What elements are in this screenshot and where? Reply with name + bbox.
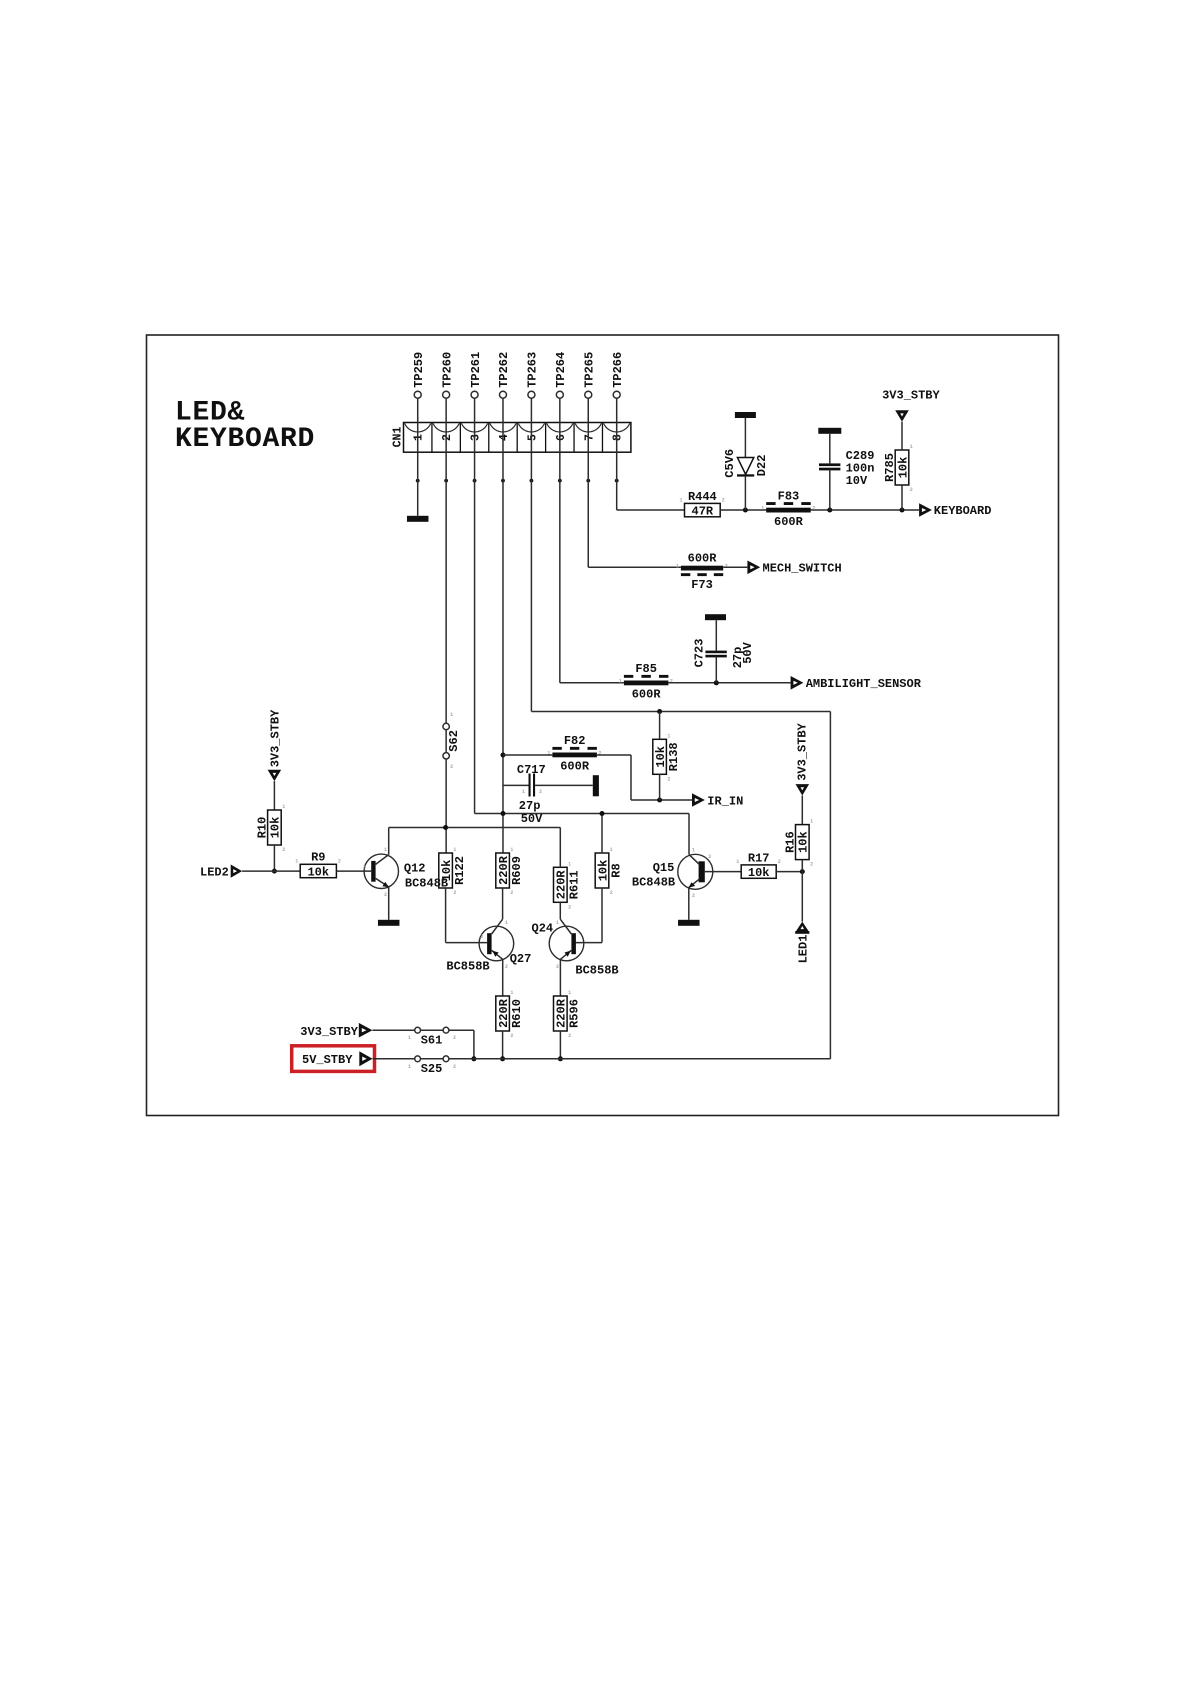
- svg-text:TP265: TP265: [582, 352, 596, 388]
- ferrite bead F85: [624, 681, 669, 686]
- svg-text:2: 2: [453, 1064, 456, 1070]
- node pin4/rail junction: [500, 811, 505, 816]
- wire 3V3 to R10: [273, 781, 275, 810]
- svg-text:1: 1: [453, 847, 456, 853]
- svg-text:8: 8: [612, 434, 625, 441]
- svg-text:R596: R596: [568, 999, 582, 1028]
- resistor R610: [496, 996, 510, 1031]
- svg-text:10k: 10k: [748, 866, 770, 880]
- svg-text:F82: F82: [564, 734, 586, 748]
- svg-text:R9: R9: [311, 851, 325, 865]
- svg-text:R16: R16: [784, 831, 798, 853]
- supply bar above D22: [735, 412, 756, 418]
- svg-text:3: 3: [480, 934, 483, 940]
- wire pin2 (S62/R122 net): [445, 452, 447, 853]
- wire 3V3 to R16: [801, 796, 803, 825]
- svg-text:TP261: TP261: [469, 352, 483, 388]
- resistor R609: [496, 853, 510, 888]
- svg-text:1: 1: [568, 861, 571, 867]
- wire Q27 emitter to R610: [502, 959, 504, 996]
- wire bar to D22: [744, 418, 746, 458]
- svg-text:1: 1: [510, 990, 513, 996]
- svg-text:R10: R10: [256, 817, 270, 839]
- wire F73 to MECH_SWITCH arrow: [723, 566, 747, 568]
- svg-text:R8: R8: [609, 863, 623, 877]
- resistor R122: [439, 853, 453, 888]
- svg-text:1: 1: [910, 444, 913, 450]
- wire R122 to Q27 base: [445, 888, 447, 943]
- capacitor C717: [503, 784, 529, 786]
- net arrow KEYBOARD: [919, 503, 932, 517]
- node R138 top junction: [657, 709, 662, 714]
- svg-text:1: 1: [510, 847, 513, 853]
- wire rail2 to Q15 collector: [688, 814, 690, 855]
- wire R17 to LED1 node: [776, 871, 802, 873]
- wire Q15 base to R17: [704, 871, 741, 873]
- svg-text:2: 2: [692, 893, 695, 899]
- svg-text:27p: 27p: [519, 799, 541, 813]
- svg-text:50V: 50V: [521, 812, 543, 826]
- svg-text:CN1: CN1: [392, 427, 405, 448]
- ferrite bead F82: [552, 753, 597, 758]
- svg-text:R138: R138: [667, 742, 681, 771]
- resistor R10: [268, 810, 282, 845]
- transistor Q27 BC858B: [479, 926, 514, 961]
- wire pin6 to F85 row: [559, 452, 561, 683]
- svg-text:KEYBOARD: KEYBOARD: [175, 424, 315, 455]
- svg-text:KEYBOARD: KEYBOARD: [934, 504, 992, 518]
- wire node to LED1: [801, 872, 803, 922]
- wire Q12 emitter to ground: [388, 887, 390, 920]
- svg-text:6: 6: [555, 434, 568, 441]
- svg-text:F73: F73: [691, 578, 713, 592]
- junction dots under CN1: [416, 479, 420, 483]
- red highlight box around 5V_STBY: [292, 1046, 375, 1072]
- wire pin5 to right rail: [530, 452, 532, 711]
- wire R444 to KEYBOARD arrow: [720, 509, 919, 511]
- switch S62: [443, 723, 449, 729]
- svg-text:2: 2: [670, 679, 673, 685]
- svg-text:1: 1: [692, 848, 695, 854]
- svg-text:BC848B: BC848B: [632, 875, 675, 889]
- svg-text:2: 2: [722, 497, 725, 503]
- svg-text:Q24: Q24: [532, 922, 554, 936]
- wire R611 to Q24 collector: [559, 902, 561, 919]
- svg-text:2: 2: [667, 776, 670, 782]
- svg-text:1: 1: [282, 804, 285, 810]
- svg-text:1: 1: [680, 497, 683, 503]
- svg-text:F85: F85: [635, 662, 657, 676]
- CN1 pin numbers 1-8: [413, 434, 426, 441]
- resistor R8: [595, 853, 609, 888]
- connector CN1 body: [404, 423, 631, 453]
- svg-text:1: 1: [556, 920, 559, 926]
- wire LED2 arrow to R9: [242, 870, 300, 872]
- resistor R9: [300, 864, 336, 877]
- resistor R444: [685, 503, 721, 516]
- svg-text:3V3_STBY: 3V3_STBY: [300, 1025, 358, 1039]
- capacitor C723: [705, 614, 726, 620]
- svg-text:600R: 600R: [560, 760, 590, 774]
- svg-text:10k: 10k: [307, 865, 329, 879]
- node R610 bottom junction: [500, 1056, 505, 1061]
- wire Q12 collector to rail: [388, 828, 390, 855]
- node C289 junction: [827, 508, 832, 513]
- svg-text:TP260: TP260: [440, 352, 454, 388]
- svg-text:220R: 220R: [497, 855, 511, 885]
- svg-text:R444: R444: [688, 490, 717, 504]
- test point circles: [414, 391, 421, 398]
- svg-text:600R: 600R: [632, 688, 662, 702]
- power 3V3_STBY right: [795, 722, 809, 780]
- svg-text:10k: 10k: [797, 831, 811, 853]
- svg-text:1: 1: [384, 847, 387, 853]
- svg-text:4: 4: [498, 434, 511, 441]
- svg-text:2: 2: [910, 487, 913, 493]
- node R16/R17/LED1 junction: [800, 869, 805, 874]
- svg-text:10k: 10k: [440, 860, 454, 882]
- svg-text:S61: S61: [421, 1033, 443, 1047]
- svg-text:3: 3: [708, 854, 711, 860]
- svg-text:10V: 10V: [846, 474, 868, 488]
- svg-text:1: 1: [295, 858, 298, 864]
- svg-text:2: 2: [450, 764, 453, 770]
- svg-text:R785: R785: [883, 453, 897, 482]
- transistor Q12 BC848B: [364, 854, 398, 888]
- node C723 junction: [714, 680, 719, 685]
- node R138 bottom junction: [657, 798, 662, 803]
- wire pin4 to F82: [503, 754, 552, 756]
- svg-text:1: 1: [667, 733, 670, 739]
- svg-text:1: 1: [522, 789, 525, 795]
- svg-text:600R: 600R: [688, 552, 718, 566]
- svg-text:220R: 220R: [497, 998, 511, 1028]
- svg-text:10k: 10k: [896, 457, 910, 479]
- rail Q12 collector to R611: [389, 827, 561, 829]
- svg-text:220R: 220R: [555, 870, 569, 900]
- svg-text:C723: C723: [693, 639, 707, 668]
- svg-text:2: 2: [778, 859, 781, 865]
- svg-text:2: 2: [610, 890, 613, 896]
- svg-text:1: 1: [676, 564, 679, 570]
- wire R16 to node: [801, 860, 803, 872]
- zener diode D22 C5V6: [737, 458, 753, 475]
- svg-text:MECH_SWITCH: MECH_SWITCH: [763, 562, 842, 576]
- wire R8 to Q24 base: [601, 888, 603, 943]
- svg-text:C717: C717: [517, 763, 546, 777]
- svg-text:220R: 220R: [555, 998, 569, 1028]
- svg-text:2: 2: [441, 434, 454, 441]
- svg-text:R122: R122: [453, 856, 467, 885]
- svg-text:AMBILIGHT_SENSOR: AMBILIGHT_SENSOR: [806, 677, 922, 691]
- ferrite bead F83: [766, 508, 811, 513]
- power 3V3_STBY left: [269, 709, 283, 767]
- svg-text:1: 1: [619, 679, 622, 685]
- net arrow AMBILIGHT_SENSOR: [791, 676, 804, 690]
- wire R609 to Q27 collector: [502, 888, 504, 919]
- svg-text:2: 2: [568, 1033, 571, 1039]
- node pin4/F82 junction: [500, 753, 505, 758]
- svg-text:BC858B: BC858B: [575, 964, 618, 978]
- transistor Q15 BC848B: [678, 854, 713, 889]
- svg-text:2: 2: [453, 890, 456, 896]
- svg-text:3V3_STBY: 3V3_STBY: [269, 709, 283, 767]
- svg-text:TP263: TP263: [526, 352, 540, 388]
- node LED2/R9 junction: [272, 869, 277, 874]
- svg-text:2: 2: [505, 964, 508, 970]
- svg-text:BC858B: BC858B: [446, 960, 489, 974]
- ground under pin 1: [407, 516, 429, 522]
- wire 5V row to right vertical: [449, 1058, 831, 1060]
- resistor R138: [653, 739, 667, 774]
- wire pin4 vertical: [502, 452, 504, 853]
- svg-text:2: 2: [810, 862, 813, 868]
- svg-text:S25: S25: [421, 1062, 443, 1076]
- wire pin8 to KEYBOARD row: [616, 452, 618, 510]
- svg-text:S62: S62: [447, 730, 461, 752]
- svg-text:R17: R17: [748, 851, 770, 865]
- wires TP to CN1: [417, 398, 419, 422]
- net arrow LED1: [795, 931, 809, 934]
- svg-text:2: 2: [510, 890, 513, 896]
- wire rail to R611: [559, 828, 561, 868]
- svg-text:1: 1: [413, 434, 426, 441]
- ferrite bead F73: [681, 566, 723, 571]
- svg-text:TP262: TP262: [497, 352, 511, 388]
- node R8 rail2 junction: [600, 811, 605, 816]
- svg-text:3V3_STBY: 3V3_STBY: [795, 722, 809, 780]
- svg-text:TP266: TP266: [611, 352, 625, 388]
- svg-text:R609: R609: [510, 856, 524, 885]
- svg-text:TP264: TP264: [554, 352, 568, 388]
- svg-text:1: 1: [761, 506, 764, 512]
- svg-text:3V3_STBY: 3V3_STBY: [882, 388, 940, 402]
- node D22 junction: [743, 508, 748, 513]
- wire Q24 emitter to R596: [559, 959, 561, 996]
- test point labels TP259-TP266: [412, 352, 426, 388]
- wire R10 to LED2 node: [273, 845, 275, 871]
- wire R610 to 5V row: [502, 1031, 504, 1059]
- svg-text:1: 1: [408, 1035, 411, 1041]
- node S61/S25 junction: [471, 1056, 476, 1061]
- wire Q15 emitter to ground: [688, 887, 690, 919]
- svg-text:1: 1: [568, 990, 571, 996]
- svg-text:1: 1: [810, 819, 813, 825]
- node R122 rail junction: [443, 825, 448, 830]
- svg-text:5V_STBY: 5V_STBY: [302, 1053, 353, 1067]
- svg-text:C5V6: C5V6: [723, 449, 737, 478]
- wire rail2 to R8: [601, 814, 603, 854]
- svg-text:3: 3: [470, 434, 483, 441]
- svg-text:Q12: Q12: [404, 861, 426, 875]
- svg-text:1: 1: [450, 712, 453, 718]
- svg-text:10k: 10k: [654, 746, 668, 768]
- svg-text:2: 2: [556, 964, 559, 970]
- resistor R16: [796, 825, 810, 860]
- svg-text:1: 1: [408, 1064, 411, 1070]
- node R596 bottom junction: [558, 1056, 563, 1061]
- svg-text:50V: 50V: [741, 641, 755, 663]
- svg-text:3: 3: [363, 865, 366, 871]
- wire R596 to 5V row: [559, 1031, 561, 1059]
- connector CN1 socket arcs: [405, 423, 630, 432]
- capacitor C289: [818, 428, 841, 434]
- schematic frame border: [147, 335, 1059, 1116]
- svg-text:5: 5: [526, 434, 539, 441]
- wire R9 to Q12 base: [336, 870, 371, 872]
- svg-text:2: 2: [338, 858, 341, 864]
- wire pin1 to ground: [417, 452, 419, 516]
- svg-text:LED1: LED1: [796, 935, 810, 964]
- wire 5V arrow to S25: [373, 1058, 415, 1060]
- svg-text:R611: R611: [568, 870, 582, 899]
- ground under Q15: [678, 920, 700, 926]
- switch S61: [415, 1027, 421, 1033]
- svg-text:2: 2: [539, 789, 542, 795]
- svg-text:1: 1: [610, 847, 613, 853]
- svg-text:F83: F83: [778, 489, 800, 503]
- wire right vertical net (to 5V row): [829, 712, 831, 1059]
- svg-text:2: 2: [510, 1033, 513, 1039]
- wire S61 to 5V net: [449, 1029, 474, 1031]
- svg-text:1: 1: [505, 920, 508, 926]
- resistor R17: [741, 865, 776, 878]
- svg-text:2: 2: [453, 1035, 456, 1041]
- wire F82 output to IR_IN: [597, 754, 631, 756]
- svg-text:2: 2: [812, 506, 815, 512]
- svg-text:Q27: Q27: [510, 952, 532, 966]
- svg-text:7: 7: [583, 434, 596, 441]
- wire pin3 to rail: [474, 452, 476, 813]
- svg-text:2: 2: [568, 904, 571, 910]
- wire F85 to AMBILIGHT_SENSOR arrow: [668, 682, 790, 684]
- svg-text:600R: 600R: [774, 515, 804, 529]
- svg-text:D22: D22: [755, 455, 769, 477]
- node R785 junction: [900, 508, 905, 513]
- label CN1: [392, 427, 405, 448]
- net arrow IR_IN: [692, 793, 705, 807]
- svg-text:10k: 10k: [596, 860, 610, 882]
- net arrow MECH_SWITCH: [747, 561, 760, 575]
- wire pin7 to F73 row: [587, 452, 589, 567]
- wire 3V3 arrow to S61: [372, 1029, 414, 1031]
- svg-text:2: 2: [282, 847, 285, 853]
- svg-text:10k: 10k: [269, 817, 283, 839]
- svg-text:LED2: LED2: [200, 865, 229, 879]
- svg-text:2: 2: [384, 892, 387, 898]
- switch S25: [415, 1056, 421, 1062]
- svg-text:R610: R610: [510, 999, 524, 1028]
- svg-text:IR_IN: IR_IN: [707, 794, 743, 808]
- resistor R596: [554, 996, 568, 1031]
- resistor R785: [895, 450, 909, 485]
- svg-text:TP259: TP259: [412, 352, 426, 388]
- ground under Q12: [378, 920, 400, 926]
- svg-text:47R: 47R: [692, 504, 714, 518]
- svg-text:1: 1: [736, 859, 739, 865]
- svg-text:Q15: Q15: [653, 861, 675, 875]
- resistor R611: [554, 867, 568, 902]
- transistor Q24 BC858B: [549, 926, 584, 961]
